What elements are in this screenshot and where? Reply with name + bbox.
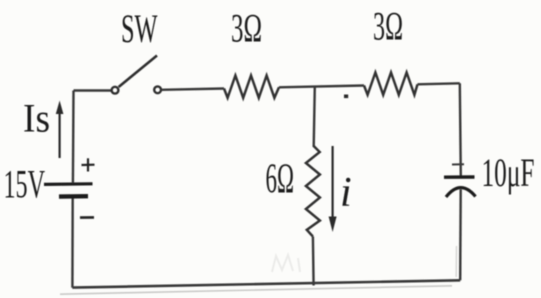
battery V1 long plate (positive) bbox=[44, 182, 93, 186]
wire R3 to bottom junction bbox=[312, 237, 315, 286]
current arrow i (downward) bbox=[329, 146, 337, 232]
svg-text:i: i bbox=[340, 170, 352, 216]
scan shadow line under bottom wire bbox=[60, 286, 452, 294]
stray ink dot bbox=[344, 95, 348, 99]
small tick on capacitor lead bbox=[452, 163, 464, 165]
scan shadow ghost along right wire near corner bbox=[455, 246, 457, 277]
wire R2 to top-right corner bbox=[418, 83, 460, 84]
resistor R2 3ohm zigzag bbox=[364, 73, 418, 95]
switch SW left contact circle bbox=[112, 87, 119, 94]
wire switch to R1 bbox=[161, 89, 224, 90]
svg-text:Is: Is bbox=[23, 96, 50, 141]
wire bottom horizontal bbox=[72, 280, 460, 287]
current arrow Is (upward) bbox=[56, 101, 64, 159]
wire capacitor to bottom-right corner bbox=[459, 190, 462, 281]
resistor R3 6ohm vertical zigzag bbox=[306, 146, 320, 237]
svg-text:10μF: 10μF bbox=[482, 150, 535, 195]
switch SW blade bbox=[119, 56, 157, 88]
svg-text:6Ω: 6Ω bbox=[266, 157, 295, 203]
capacitor C1 curved bottom plate bbox=[446, 188, 476, 197]
wire right side down to capacitor bbox=[460, 83, 461, 176]
wire battery up to top-left corner bbox=[72, 91, 75, 184]
battery minus sign bbox=[80, 216, 94, 219]
svg-text:SW: SW bbox=[121, 6, 158, 51]
battery V1 short plate (negative) bbox=[59, 194, 88, 199]
capacitor C1 top plate bbox=[444, 175, 475, 179]
svg-text:3Ω: 3Ω bbox=[231, 6, 262, 51]
svg-text:3Ω: 3Ω bbox=[373, 4, 403, 49]
resistor R1 3ohm zigzag bbox=[224, 76, 279, 98]
wire top-left horizontal (corner to switch) bbox=[74, 89, 112, 91]
wire R1 to node A and on to R2 bbox=[279, 86, 364, 88]
faint smudge near bottom junction bbox=[272, 255, 300, 272]
node A: wire from top node down to R3 bbox=[314, 86, 315, 147]
battery plus sign bbox=[82, 158, 95, 171]
switch SW right contact circle bbox=[154, 86, 161, 93]
svg-text:15V: 15V bbox=[4, 162, 46, 207]
wire left side bottom (corner up to battery) bbox=[71, 198, 74, 288]
